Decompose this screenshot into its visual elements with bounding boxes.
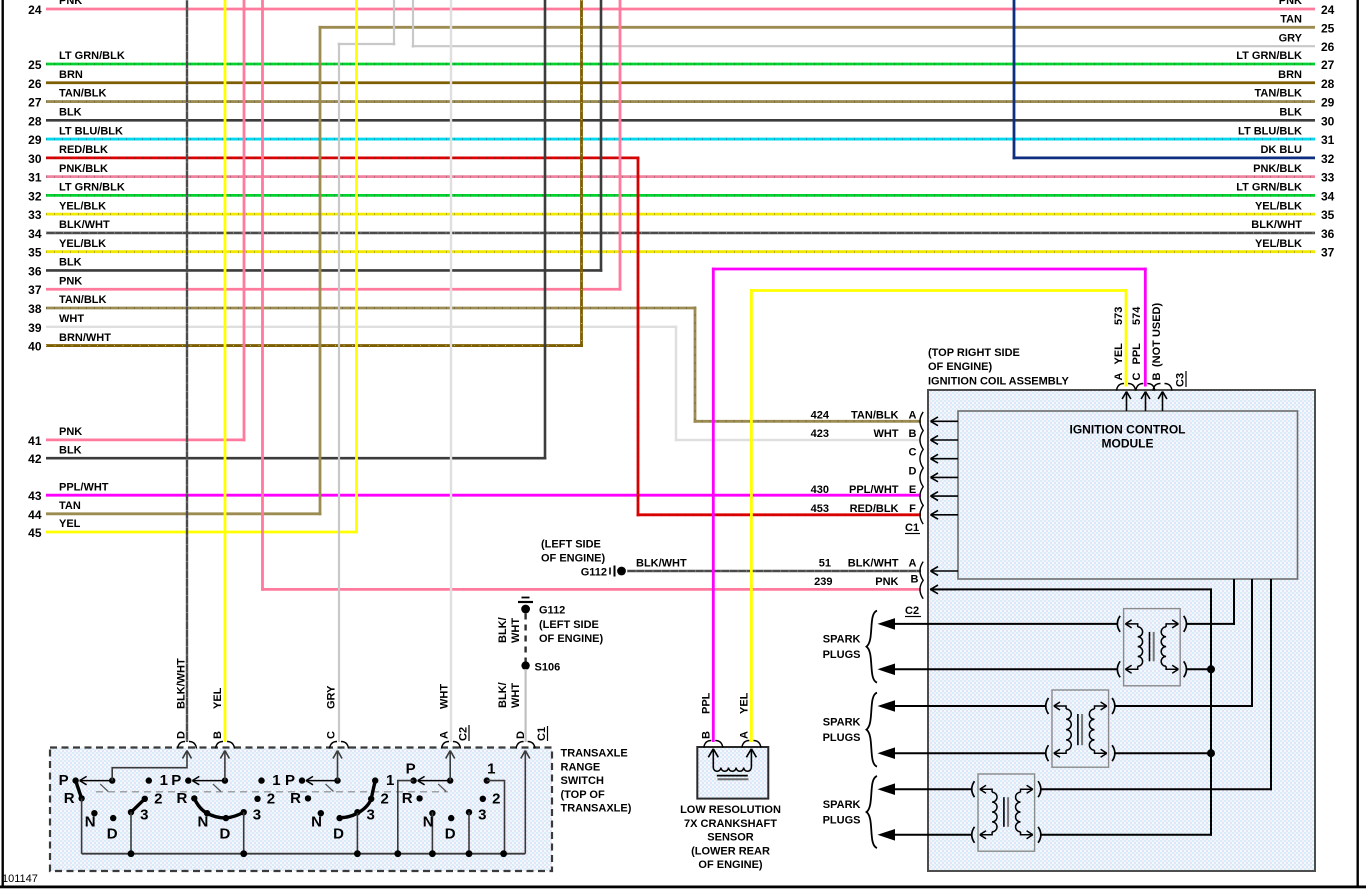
svg-text:WHT: WHT [439,684,451,709]
page border right [1357,0,1359,888]
junction dot bus [429,850,436,857]
svg-text:C: C [909,447,917,459]
wire BLK/WHT vertical to switch pin D [186,0,188,742]
sensor pickup coil [713,768,751,780]
junction dot coil1 common [1207,665,1215,673]
svg-text:N: N [85,814,96,831]
svg-text:TAN/BLK: TAN/BLK [851,409,899,421]
switch connector arcs pin D [178,742,197,749]
wire C2 pin B to common vertical [930,588,1212,590]
svg-text:C1: C1 [536,727,548,741]
svg-text:44: 44 [28,508,42,522]
svg-text:31: 31 [28,171,42,185]
wire PNK vertical to row 37 [619,0,622,291]
switch connector arcs pin D C1 [516,742,535,749]
svg-text:GRY: GRY [326,685,338,709]
svg-text:OF ENGINE): OF ENGINE) [698,859,763,871]
svg-text:26: 26 [1321,40,1335,54]
spark plug arrow coil2 top [878,700,896,712]
wire spark coil3 top [893,788,972,790]
splice S106 dot [521,661,529,669]
wire PPL vertical to sensor pin B [712,268,715,742]
svg-text:43: 43 [28,489,42,503]
wire coil3 bottom to common [1041,834,1212,836]
svg-text:36: 36 [28,264,42,278]
junction dot coil2 common [1207,749,1215,757]
svg-text:574: 574 [1131,306,1143,325]
wire BLK/WHT dashed G112 to S106 [524,614,526,662]
svg-text:2: 2 [381,791,389,808]
svg-text:3: 3 [140,807,148,824]
svg-text:BLK: BLK [1279,107,1302,119]
svg-text:P: P [171,772,181,789]
switch pole 4 feed arrow [446,751,455,781]
svg-text:(TOP OF: (TOP OF [561,789,605,801]
svg-text:(LEFT SIDE: (LEFT SIDE [539,619,599,631]
wire 38 TAN/BLK [46,307,696,310]
wire 25 LT GRN/BLK [46,63,1315,66]
label C1 [905,522,920,534]
switch pole 1 wiper P-R [76,781,82,799]
wire PNK vertical to row 41 [243,0,246,441]
ground G112 symbol left of 51 wire [610,566,626,577]
crankshaft sensor box [697,747,768,799]
svg-text:BRN/WHT: BRN/WHT [59,332,111,344]
connector C1 squiggle [920,412,923,524]
svg-text:41: 41 [28,434,42,448]
svg-text:51: 51 [819,558,831,570]
svg-text:R: R [64,790,75,807]
svg-text:LT BLU/BLK: LT BLU/BLK [1238,125,1302,137]
svg-text:D: D [176,731,188,739]
svg-text:LT GRN/BLK: LT GRN/BLK [1236,50,1302,62]
svg-text:PPL: PPL [1131,343,1143,365]
svg-text:2: 2 [492,791,500,808]
wire RED/BLK vertical [637,156,640,516]
wire coil2 top to feed [1115,705,1253,707]
junction dot bus [466,850,473,857]
svg-text:28: 28 [1321,77,1335,91]
svg-text:SENSOR: SENSOR [707,832,754,844]
svg-text:OF ENGINE): OF ENGINE) [539,633,604,645]
svg-text:25: 25 [28,58,42,72]
wire 40 BRN/WHT [46,344,583,347]
svg-text:TAN: TAN [59,500,81,512]
svg-text:IGNITION COIL ASSEMBLY: IGNITION COIL ASSEMBLY [928,376,1069,388]
svg-text:PLUGS: PLUGS [823,815,861,827]
label C2 [905,605,921,617]
svg-text:PLUGS: PLUGS [823,732,861,744]
wire GRY stub to pin C [338,43,396,45]
svg-text:C1: C1 [905,522,919,534]
svg-text:PPL/WHT: PPL/WHT [59,481,109,493]
svg-text:30: 30 [28,152,42,166]
svg-text:(TOP RIGHT SIDE: (TOP RIGHT SIDE [928,347,1020,359]
svg-text:24: 24 [28,3,42,17]
sensor connector arcs pin A [742,741,761,748]
svg-text:453: 453 [811,503,829,515]
sensor pin B arrow [708,749,718,768]
rot label C3 [1175,371,1187,387]
svg-text:BLK/WHT: BLK/WHT [848,558,899,570]
svg-text:IGNITION CONTROL: IGNITION CONTROL [1070,423,1186,437]
switch pole 2 wiper R-N-D-3 [194,798,243,818]
pin C arrow [931,454,959,463]
wire 45 YEL [46,531,358,534]
junction dot bus [500,850,507,857]
svg-text:C: C [1131,373,1143,381]
svg-text:35: 35 [28,246,42,260]
switch connector arcs pin A [442,742,461,749]
svg-text:P: P [59,772,69,789]
svg-text:423: 423 [811,428,829,440]
wire 37 PNK [46,288,621,291]
svg-text:40: 40 [28,340,42,354]
svg-text:SPARK: SPARK [823,799,861,811]
svg-text:YEL/BLK: YEL/BLK [1255,238,1302,250]
wire 24 PNK [46,8,1315,11]
pin C2-A arrow [931,567,959,576]
svg-text:1: 1 [487,761,495,778]
svg-text:A: A [739,731,751,739]
C3 pin A arrow [1122,392,1131,412]
svg-text:WHT: WHT [510,618,522,643]
junction dot bus [240,850,247,857]
wire spark coil1 top [893,623,1118,625]
svg-text:BLK/: BLK/ [497,682,509,708]
C3 pin C arrow [1141,392,1150,412]
junction dot bus [354,850,361,857]
svg-text:(NOT USED): (NOT USED) [1151,303,1163,368]
wire 39 WHT [46,326,677,328]
svg-text:OF ENGINE): OF ENGINE) [928,361,993,373]
wire 26 BRN [46,81,1315,84]
svg-text:F: F [909,503,916,515]
wire 424 TAN/BLK to pin A [694,420,921,423]
wire TAN/BLK vertical [694,307,697,423]
svg-text:D: D [107,826,118,843]
switch pole3 3 to bus [356,813,358,854]
rot label C2 switch [458,725,470,741]
switch pole 3 contacts [299,776,379,821]
switch pole4 1 to bus [487,781,505,854]
svg-text:101147: 101147 [2,873,38,885]
spark plugs brace 2 [867,693,878,767]
wire spark coil2 bottom [893,752,1046,754]
svg-text:B: B [911,573,919,585]
svg-text:PNK: PNK [59,426,82,438]
svg-text:34: 34 [1321,189,1335,203]
switch pole 4 contacts [410,776,490,821]
wire 35 YEL/BLK [46,250,1315,253]
svg-text:BLK/WHT: BLK/WHT [636,558,687,570]
svg-text:1: 1 [272,772,280,789]
wire coil1 bottom to common [1186,668,1211,670]
wire BLK/WHT S106 to switch pin D C1 [524,669,526,742]
svg-text:WHT: WHT [59,313,84,325]
svg-text:P: P [406,761,416,778]
spark plug arrow coil1 top [878,618,896,630]
switch pole 3 feed arrow [333,751,342,781]
switch pole4 3 to bus [468,812,470,854]
svg-text:27: 27 [1321,58,1335,72]
wire DK BLU vertical [1013,0,1016,159]
wire 239 PNK to C2 pin B [261,588,921,591]
svg-text:1: 1 [386,772,394,789]
wire BRN/WHT vertical to row 40 [580,0,583,347]
svg-text:YEL: YEL [212,687,224,709]
page border bottom [0,886,1366,889]
svg-text:32: 32 [1321,152,1335,166]
svg-text:35: 35 [1321,208,1335,222]
svg-text:A: A [439,731,451,739]
svg-text:37: 37 [1321,246,1335,260]
svg-text:D: D [515,731,527,739]
connector C3 arcs pin B [1153,384,1172,391]
svg-text:26: 26 [28,77,42,91]
svg-text:239: 239 [814,576,832,588]
wire 34 BLK/WHT [46,232,1315,235]
svg-text:PNK: PNK [59,0,82,7]
svg-text:25: 25 [1321,21,1335,35]
wire TAN vertical [319,26,322,515]
wire PNK vertical to 239 [261,0,264,591]
sensor pin A arrow [746,749,756,768]
switch common bus [82,853,526,855]
svg-text:TAN: TAN [1280,14,1302,26]
svg-text:MODULE: MODULE [1102,437,1154,451]
wire GRY (right 26) [412,45,1315,47]
wire YEL vertical to row 45 [355,0,358,533]
svg-text:DK BLU: DK BLU [1260,144,1302,156]
svg-text:BLK: BLK [59,444,82,456]
svg-text:BLK/WHT: BLK/WHT [176,658,188,709]
svg-text:573: 573 [1113,307,1125,325]
wire TAN (right 25) [319,26,1315,29]
wire 423 WHT to pin B [675,439,921,441]
svg-text:YEL: YEL [59,518,81,530]
switch pole 1 wiper 2-3 [131,799,145,812]
transaxle range switch box (dashed) [50,748,552,872]
svg-text:B: B [212,731,224,739]
switch pole4 P to bus [398,781,414,854]
wire GRY vertical stub off top [393,0,395,45]
svg-text:RED/BLK: RED/BLK [850,503,899,515]
wire YEL vertical to C3 pin A [1125,289,1128,386]
svg-text:E: E [909,484,916,496]
svg-text:TAN/BLK: TAN/BLK [59,294,107,306]
svg-text:S106: S106 [535,662,561,674]
svg-text:N: N [423,814,434,831]
wire spark coil1 bottom [893,668,1118,670]
svg-text:TAN/BLK: TAN/BLK [1255,88,1303,100]
svg-text:C2: C2 [905,605,919,617]
C3 pin B arrow [1158,392,1167,412]
svg-text:LT GRN/BLK: LT GRN/BLK [59,182,125,194]
switch pole 1 contacts [72,776,152,821]
wire 29 LT BLU/BLK [46,138,1315,141]
switch pole 1 feed path [112,751,191,781]
wire YEL vertical to sensor pin A [750,289,753,742]
svg-text:BRN: BRN [59,69,83,81]
svg-text:N: N [197,814,208,831]
svg-text:PLUGS: PLUGS [823,649,861,661]
switch connector arcs pin B [216,742,235,749]
wire feed vertical coil1 [1233,579,1235,625]
svg-text:29: 29 [1321,96,1335,110]
svg-text:BLK: BLK [59,257,82,269]
wire 31 PNK/BLK [46,175,1315,178]
svg-text:YEL: YEL [739,692,751,714]
svg-text:R: R [176,790,187,807]
svg-text:32: 32 [28,189,42,203]
wire YEL vertical to switch pin B [224,0,227,742]
svg-text:BLK/: BLK/ [497,617,509,643]
wire 32 DK BLU (right) [1013,156,1315,159]
ignition coil 2 [1046,690,1115,767]
svg-text:2: 2 [267,791,275,808]
svg-text:3: 3 [253,807,261,824]
wire spark coil3 bottom [893,834,972,836]
svg-text:TRANSAXLE): TRANSAXLE) [561,803,632,815]
pin C2-B arrow [931,585,959,594]
svg-text:GRY: GRY [1279,32,1303,44]
switch pole1 R to bus [81,798,83,853]
switch pole1 3 to bus [130,812,132,854]
svg-text:3: 3 [478,807,486,824]
svg-text:BLK/WHT: BLK/WHT [1251,219,1302,231]
wire 41 PNK [46,438,245,441]
svg-text:LOW RESOLUTION: LOW RESOLUTION [680,804,781,816]
svg-text:R: R [402,790,413,807]
svg-text:TRANSAXLE: TRANSAXLE [561,748,628,760]
page border left [2,0,4,888]
wire WHT vertical to switch pin A [450,0,452,742]
wire feed vertical coil2 [1251,579,1253,707]
svg-text:BLK/WHT: BLK/WHT [59,219,110,231]
wire common vertical [1210,589,1212,835]
svg-text:SPARK: SPARK [823,634,861,646]
svg-text:RANGE: RANGE [561,761,601,773]
wire PPL vertical to C3 pin C [1144,268,1147,387]
spark plug arrow coil1 bottom [878,664,896,676]
svg-text:1: 1 [160,772,168,789]
svg-text:BLK: BLK [59,107,82,119]
svg-text:30: 30 [1321,114,1335,128]
wire BLK vertical to row 42 [544,0,547,460]
svg-text:LT GRN/BLK: LT GRN/BLK [1236,182,1302,194]
svg-text:R: R [290,790,301,807]
svg-text:A: A [909,558,917,570]
connector C3 arcs pin C [1136,384,1155,391]
svg-text:D: D [909,465,917,477]
wire feed vertical coil3 [1270,579,1272,790]
switch actuator dashed line [96,791,448,793]
wire GRY vertical to switch pin C [338,43,340,742]
ignition module assembly box [928,390,1315,871]
svg-text:B: B [1151,373,1163,381]
svg-text:G112: G112 [539,605,565,617]
svg-text:C3: C3 [1175,373,1187,387]
pin E arrow [931,492,959,501]
wire 27 TAN/BLK [46,100,1315,103]
spark plug arrow coil2 bottom [878,747,896,759]
wire 36 BLK [46,269,602,272]
wire GRY vertical from top [412,0,414,48]
svg-text:A: A [1113,373,1125,381]
svg-text:PPL: PPL [701,692,713,714]
switch connector arcs pin C [330,742,349,749]
svg-text:YEL: YEL [1113,343,1125,365]
wire 42 BLK [46,457,546,460]
svg-text:D: D [219,826,230,843]
spark plugs brace 1 [867,611,878,683]
ground G112 symbol above dashed wire [518,598,533,614]
svg-text:(LOWER REAR: (LOWER REAR [691,845,770,857]
wire WHT vertical [675,326,677,442]
svg-text:36: 36 [1321,227,1335,241]
wire spark coil2 top [893,705,1046,707]
wire coil3 top to feed [1041,788,1272,790]
svg-text:39: 39 [28,321,42,335]
connector C3 arcs pin A [1117,384,1136,391]
svg-text:24: 24 [1321,3,1335,17]
svg-text:LT GRN/BLK: LT GRN/BLK [59,50,125,62]
svg-text:PNK: PNK [1279,0,1302,7]
svg-text:G112: G112 [581,567,607,579]
wire coil2 bottom to common [1115,752,1211,754]
svg-text:OF ENGINE): OF ENGINE) [541,553,606,565]
svg-text:42: 42 [28,452,42,466]
svg-text:PNK: PNK [875,576,898,588]
wire 44 TAN [46,512,321,515]
junction dot bus [128,850,135,857]
svg-text:N: N [311,814,322,831]
svg-text:B: B [701,731,713,739]
svg-text:33: 33 [1321,171,1335,185]
wire 30 RED/BLK [46,156,639,159]
svg-text:27: 27 [28,96,42,110]
svg-text:YEL/BLK: YEL/BLK [59,238,106,250]
wire 32 LT GRN/BLK [46,194,1315,197]
ignition coil 1 [1117,609,1186,686]
svg-text:7X CRANKSHAFT: 7X CRANKSHAFT [684,818,777,830]
svg-text:D: D [445,826,456,843]
wire 43 PPL/WHT to pin E [46,494,921,497]
svg-text:SPARK: SPARK [823,717,861,729]
svg-text:34: 34 [28,227,42,241]
switch pole4 N to bus [431,812,433,854]
svg-text:YEL/BLK: YEL/BLK [1255,200,1302,212]
wire BLK vertical to row 36 [600,0,603,272]
svg-text:B: B [909,428,917,440]
connector C2 squiggle [920,562,923,599]
wire coil1 top to feed [1186,623,1235,625]
svg-text:P: P [285,772,295,789]
switch pole 3 wiper 1-2-3-D [340,781,376,818]
ignition control module inner box [958,411,1298,579]
svg-text:33: 33 [28,208,42,222]
switch pole2 3 to bus [243,812,245,854]
wire 33 YEL/BLK [46,213,1315,216]
pin D arrow [931,473,959,482]
svg-text:WHT: WHT [873,428,898,440]
svg-text:(LEFT SIDE: (LEFT SIDE [541,539,601,551]
spark plugs brace 3 [867,776,878,848]
svg-text:3: 3 [367,807,375,824]
svg-text:45: 45 [28,526,42,540]
svg-text:31: 31 [1321,133,1335,147]
